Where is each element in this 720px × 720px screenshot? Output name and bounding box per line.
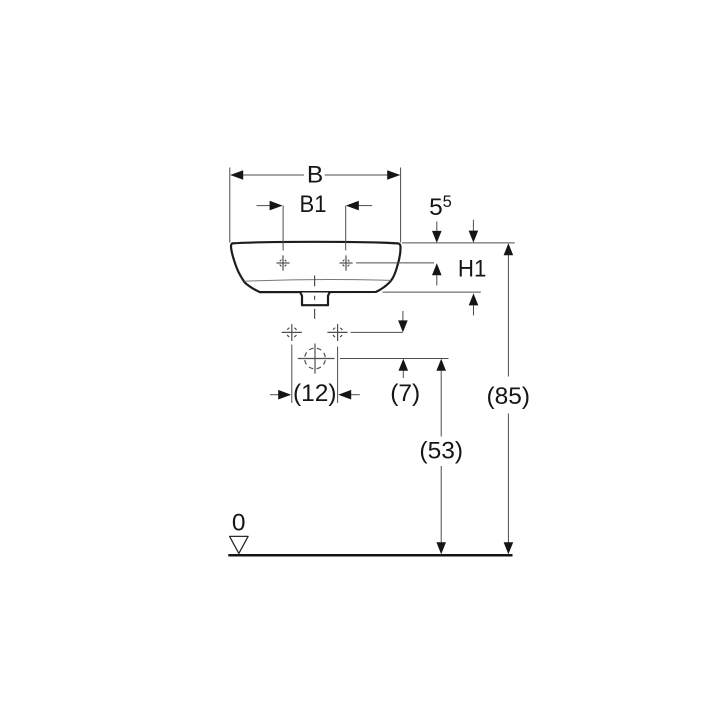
drain cross vertical (314, 344, 316, 374)
(12) arrow left (270, 394, 280, 396)
B1 extension line right down to tap hole (345, 206, 347, 251)
drain circle dashed (305, 348, 326, 369)
dimension B1 arrow right (357, 205, 372, 207)
arrowhead B right (387, 170, 400, 180)
5.5 up arrow (432, 263, 442, 275)
(53) dimension line (436, 359, 446, 371)
fixing level down arrow (402, 311, 404, 321)
svg-text:(85): (85) (487, 383, 531, 410)
svg-text:B: B (307, 161, 323, 188)
ground line (228, 554, 512, 557)
arrowhead B left (230, 170, 243, 180)
B1 extension line left down to tap hole (282, 206, 284, 251)
tap level reference line (356, 262, 434, 264)
bottom level reference line (383, 291, 481, 293)
H1 up arrow (469, 293, 479, 305)
tap hole cross right (339, 255, 352, 270)
svg-text:5: 5 (429, 194, 443, 221)
svg-text:(12): (12) (293, 380, 337, 407)
fixing hole cross left (282, 324, 302, 341)
(12) arrow right (350, 394, 360, 396)
datum triangle (230, 536, 249, 553)
svg-text:(7): (7) (390, 380, 420, 407)
(7) up arrow (399, 359, 409, 371)
fixing hole leader line (351, 331, 403, 333)
svg-text:H1: H1 (458, 255, 487, 282)
dimension B extension line left (229, 168, 231, 243)
(85) dimension line (504, 243, 514, 255)
drain level reference line (340, 358, 449, 360)
(12) extension line right (337, 347, 339, 404)
basin inner rim line (245, 279, 391, 281)
drain trap (300, 293, 329, 306)
top level reference line (402, 242, 515, 244)
fixing hole cross right (327, 324, 347, 341)
trap dashed centerline (314, 276, 316, 287)
svg-text:(53): (53) (419, 438, 463, 465)
svg-text:0: 0 (232, 510, 246, 537)
svg-text:B1: B1 (300, 191, 327, 218)
(12) extension line left (291, 345, 293, 404)
svg-text:5: 5 (443, 193, 452, 211)
tap hole cross left (276, 255, 289, 270)
H1 down arrow (472, 220, 474, 232)
washbasin outline (231, 242, 401, 292)
dimension B extension line right (400, 168, 402, 243)
drain cross horizontal (298, 358, 335, 360)
5.5 down arrow (436, 222, 438, 232)
dimension B1 arrow left (257, 205, 272, 207)
dimension line B (231, 174, 304, 176)
